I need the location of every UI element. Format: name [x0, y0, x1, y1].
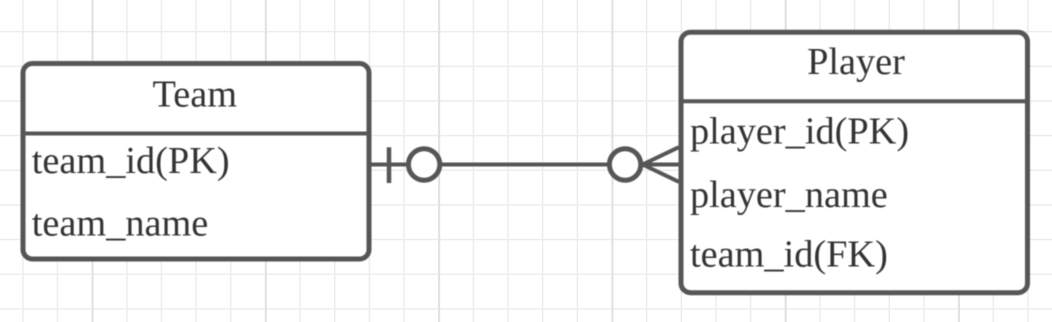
Player header divider	[679, 99, 1030, 103]
entity Team	[21, 64, 372, 260]
svg-text:player_name: player_name	[690, 174, 888, 216]
svg-text:Team: Team	[153, 74, 238, 116]
svg-text:player_id(PK): player_id(PK)	[690, 111, 909, 153]
circle: zero-or-one marker (Team side)	[408, 149, 439, 180]
wire: relationship line Team-Player	[372, 163, 680, 167]
svg-text:Player: Player	[807, 41, 905, 83]
entity Player	[679, 32, 1030, 293]
circle: zero-or-many marker (Player side)	[609, 149, 640, 180]
svg-text:team_id(FK): team_id(FK)	[690, 234, 888, 276]
crow's foot top prong	[643, 147, 679, 164]
one tick (Team side cardinality bar)	[387, 147, 392, 183]
svg-text:team_id(PK): team_id(PK)	[32, 140, 230, 182]
crow's foot bottom prong	[643, 165, 679, 182]
svg-text:team_name: team_name	[32, 203, 209, 245]
Team header divider	[21, 132, 372, 136]
